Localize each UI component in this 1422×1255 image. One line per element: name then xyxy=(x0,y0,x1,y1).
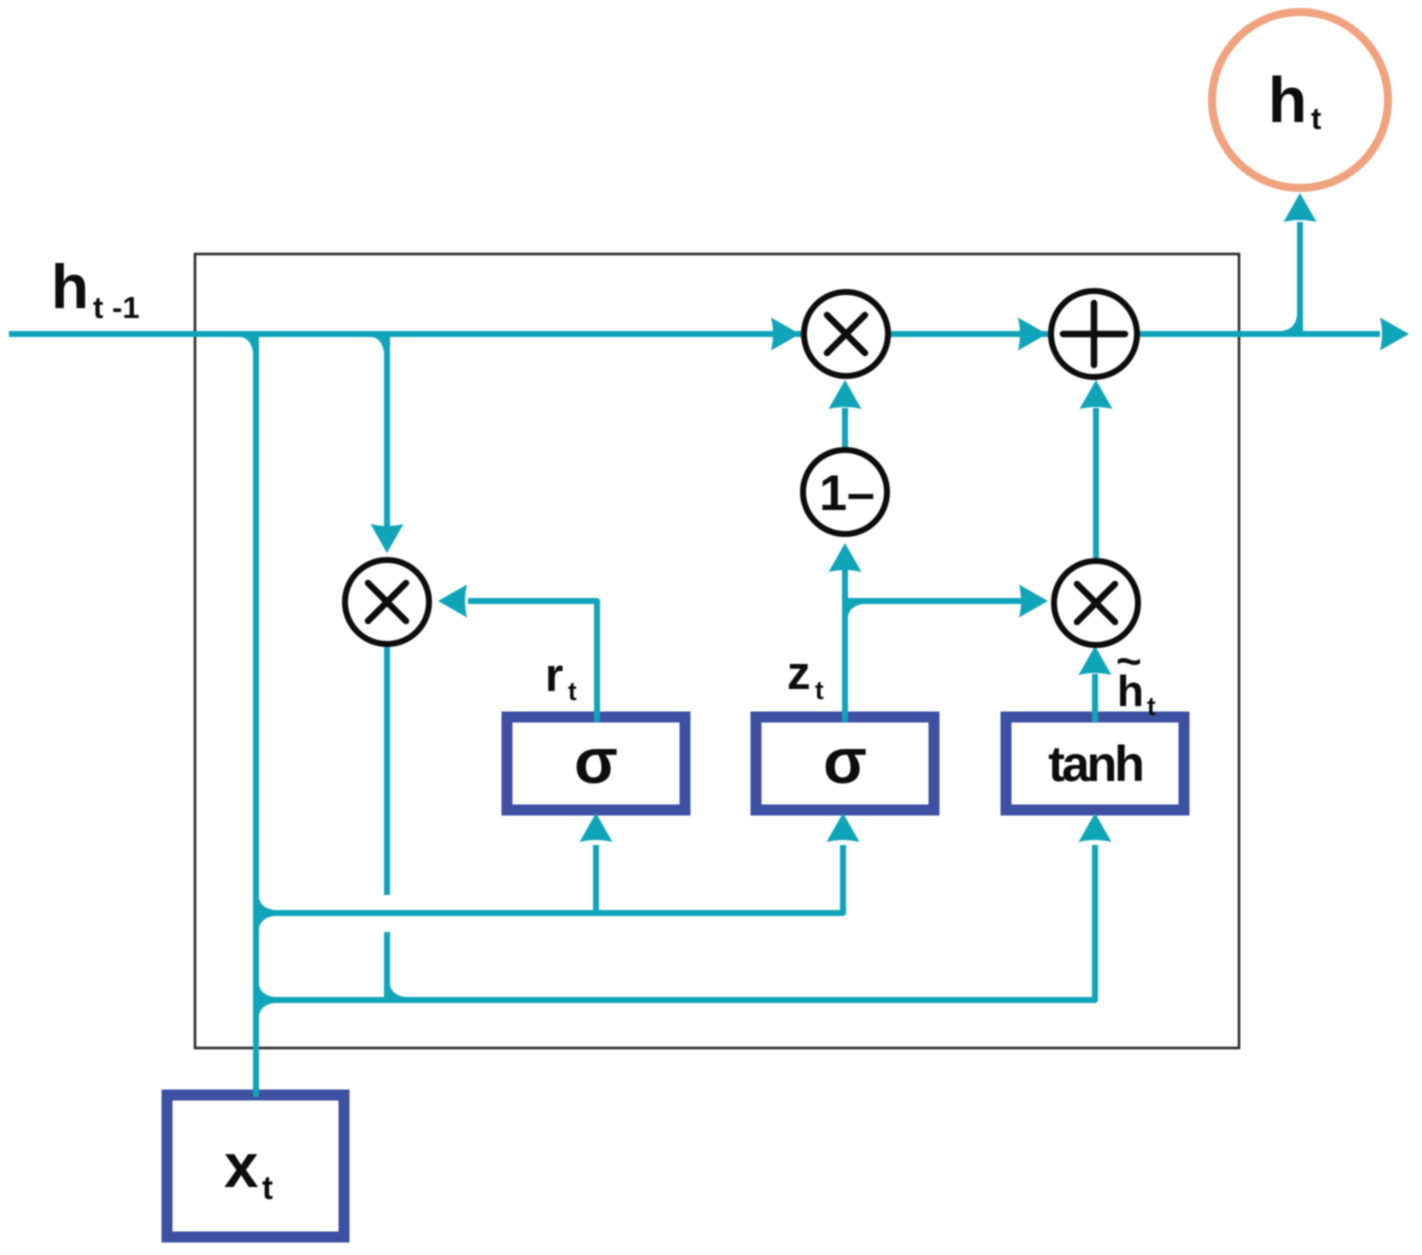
svg-text:h: h xyxy=(1268,64,1307,136)
svg-text:r: r xyxy=(545,648,563,701)
svg-text:t: t xyxy=(568,676,577,706)
svg-text:h: h xyxy=(51,253,89,322)
svg-text:tanh: tanh xyxy=(1048,736,1142,792)
svg-text:t: t xyxy=(93,290,103,325)
svg-text:~: ~ xyxy=(1116,637,1142,686)
svg-text:t: t xyxy=(1147,691,1156,721)
svg-text:t: t xyxy=(1311,101,1321,136)
svg-text:z: z xyxy=(787,646,811,699)
svg-text:t: t xyxy=(815,675,824,705)
svg-text:σ: σ xyxy=(574,725,618,797)
svg-text:-1: -1 xyxy=(112,290,140,325)
svg-text:1–: 1– xyxy=(819,465,875,521)
svg-text:σ: σ xyxy=(823,725,867,797)
svg-text:t: t xyxy=(262,1169,273,1206)
svg-text:x: x xyxy=(224,1132,259,1201)
